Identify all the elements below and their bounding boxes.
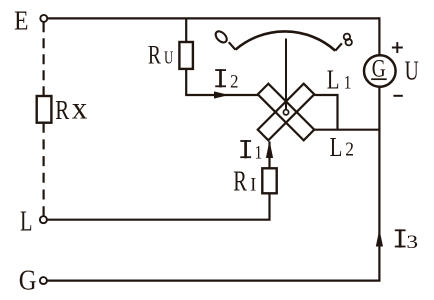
resistor Rx (37, 96, 52, 123)
svg-text:U: U (405, 56, 419, 86)
wire RU branch vertical from top wire (185, 18, 187, 42)
label I2 (215, 69, 226, 87)
terminal G (40, 277, 47, 284)
arrow I2 on wire (214, 91, 229, 98)
wire right vertical lower: generator to bottom-right corner (378, 88, 380, 281)
svg-text:L: L (20, 207, 32, 238)
wire L terminal to RI bottom (47, 193, 270, 219)
wire RU bottom to I2 horizontal into coil L2 left end (186, 69, 258, 95)
coil L2 (upper-left to lower-right rectangle) (258, 84, 315, 141)
svg-text:3: 3 (406, 231, 418, 253)
dashed lead Rx to L terminal (42, 123, 44, 217)
meter needle (285, 39, 287, 111)
scale end tick left (229, 42, 236, 50)
dashed lead E to Rx (42, 22, 44, 96)
wire RI top to coil L1 lower end (current I1) (268, 142, 270, 169)
resistor RU (179, 42, 193, 69)
scale end tick right (335, 43, 342, 50)
polarity minus (393, 95, 402, 97)
wire bottom: G terminal to bottom-right corner (47, 280, 380, 282)
svg-text:2: 2 (230, 71, 238, 92)
coil L1 (lower-left to upper-right rectangle) (258, 84, 315, 141)
svg-text:R: R (148, 41, 162, 69)
svg-text:2: 2 (345, 138, 354, 161)
wire L2 lower-right end to generator negative wire (314, 129, 379, 131)
terminal E (40, 15, 47, 22)
label I1 (240, 140, 251, 158)
wire right vertical upper: corner down to generator (378, 17, 380, 55)
svg-text:R: R (233, 167, 247, 198)
polarity plus (392, 42, 403, 53)
generator G (364, 55, 396, 87)
svg-text:L: L (327, 65, 340, 95)
svg-text:1: 1 (344, 72, 352, 93)
svg-text:G: G (19, 264, 37, 296)
label I3 (395, 229, 406, 247)
svg-text:L: L (330, 132, 343, 162)
arrow I1 on wire (266, 141, 273, 159)
svg-text:E: E (14, 6, 28, 36)
svg-text:R: R (55, 95, 70, 125)
meter scale arc (235, 31, 335, 50)
wire L1 top-right end jog down to common node (314, 95, 337, 130)
svg-text:U: U (164, 49, 173, 69)
pivot at coil crossing (283, 110, 288, 115)
svg-text:1: 1 (255, 142, 263, 163)
wire top: E terminal to top-right corner (47, 17, 379, 19)
arrow I3 on wire (376, 229, 383, 246)
svg-text:x: x (72, 90, 88, 126)
scale label 0 (214, 29, 229, 44)
terminal L (40, 216, 47, 223)
resistor RI (262, 168, 276, 193)
scale label infinity (344, 34, 352, 46)
svg-text:G: G (372, 54, 386, 82)
svg-text:I: I (250, 174, 256, 196)
